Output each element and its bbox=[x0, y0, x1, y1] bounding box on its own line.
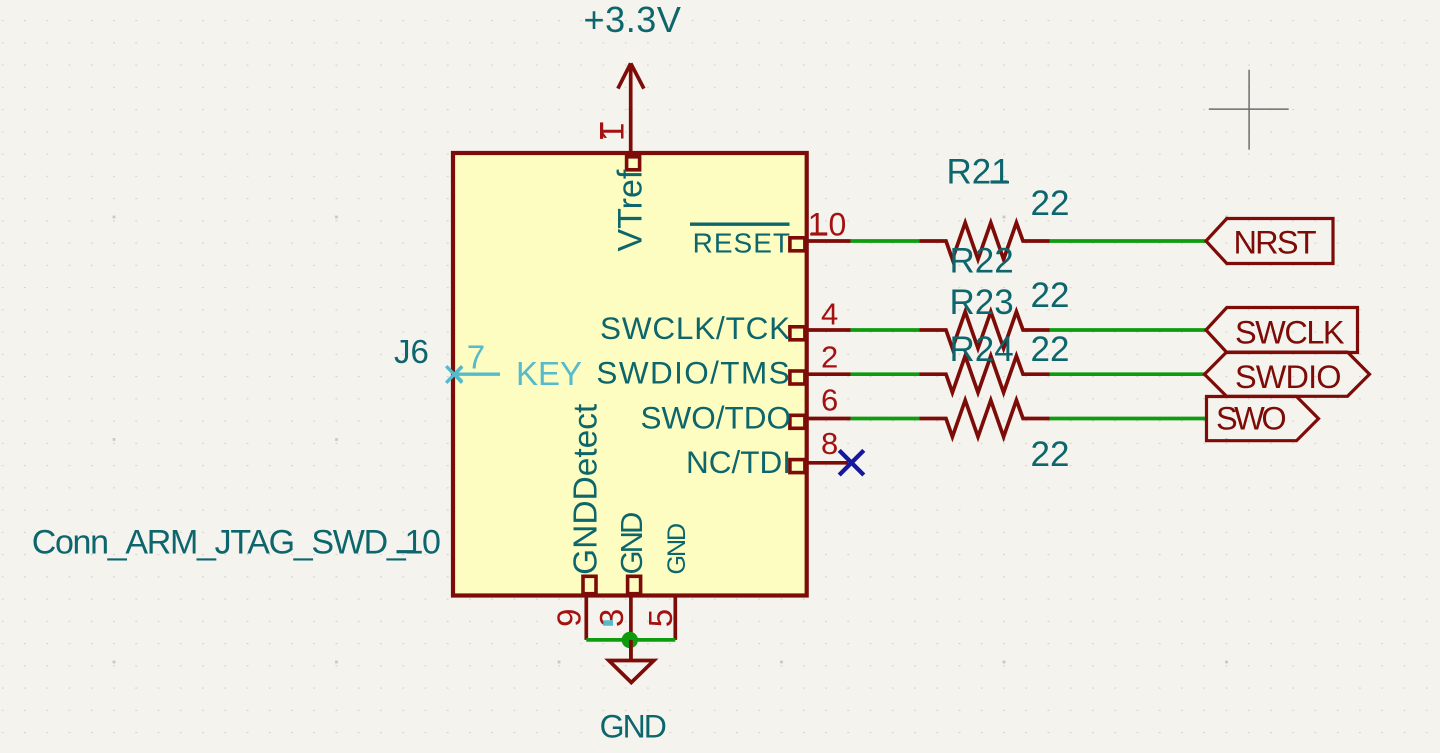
power symbol GND bbox=[600, 640, 666, 745]
wire R21 to NRST label bbox=[1050, 239, 1207, 243]
svg-text:22: 22 bbox=[1031, 184, 1070, 223]
resistor R24 bbox=[920, 330, 1070, 474]
wire R24 to SWO label bbox=[1050, 417, 1207, 421]
svg-text:9: 9 bbox=[551, 608, 588, 626]
global label NRST bbox=[1206, 219, 1333, 264]
wire pin6 to R24 bbox=[851, 417, 920, 421]
svg-text:Conn_ARM_JTAG_SWD_10: Conn_ARM_JTAG_SWD_10 bbox=[32, 523, 440, 561]
wire pin2 to R23 bbox=[851, 372, 920, 376]
svg-text:NC/TDI: NC/TDI bbox=[686, 444, 791, 480]
wire pin10 to R21 bbox=[851, 239, 920, 243]
connector J6 body bbox=[453, 153, 807, 596]
global label SWCLK bbox=[1206, 308, 1358, 353]
svg-text:5: 5 bbox=[642, 609, 679, 627]
svg-text:GND: GND bbox=[600, 709, 666, 745]
svg-text:J6: J6 bbox=[394, 333, 429, 370]
svg-text:SWO: SWO bbox=[1216, 401, 1285, 437]
svg-text:KEY: KEY bbox=[516, 355, 582, 392]
svg-text:R23: R23 bbox=[950, 283, 1014, 322]
svg-text:SWCLK: SWCLK bbox=[1235, 314, 1345, 350]
svg-text:NRST: NRST bbox=[1234, 225, 1317, 261]
global label SWDIO bbox=[1205, 352, 1370, 396]
hidden pin 7 (KEY) of J6 bbox=[446, 339, 582, 393]
junction at pin 3 / GND bbox=[622, 632, 638, 648]
pin 1 (VTref) of J6 bbox=[594, 108, 650, 252]
wire R23 to SWDIO label bbox=[1050, 372, 1205, 376]
svg-text:22: 22 bbox=[1031, 435, 1070, 474]
svg-text:GND: GND bbox=[614, 513, 649, 575]
sheet origin crosshair bbox=[1209, 70, 1289, 150]
global label SWO bbox=[1207, 397, 1319, 441]
svg-text:22: 22 bbox=[1031, 276, 1070, 315]
resistor R22 bbox=[920, 241, 1070, 348]
wire R22 to SWCLK label bbox=[1050, 328, 1207, 332]
svg-text:R24: R24 bbox=[950, 330, 1014, 369]
svg-text:SWDIO: SWDIO bbox=[1235, 359, 1341, 395]
svg-text:+3.3V: +3.3V bbox=[583, 0, 681, 40]
svg-text:8: 8 bbox=[821, 426, 838, 461]
svg-text:SWO/TDO: SWO/TDO bbox=[641, 400, 792, 436]
resistor R23 bbox=[920, 283, 1070, 393]
power symbol +3.3V bbox=[583, 0, 681, 110]
svg-text:2: 2 bbox=[821, 339, 838, 374]
pin 10 (RESET) of J6 bbox=[690, 207, 851, 259]
svg-text:4: 4 bbox=[821, 297, 838, 332]
svg-text:GND: GND bbox=[663, 524, 691, 575]
wire gnd bus (pins 9,3,5) bbox=[586, 638, 675, 642]
no-connect X at pin 8 bbox=[839, 450, 864, 475]
hidden-pin artifact near pin 3 bbox=[603, 620, 613, 626]
pin 4 (SWCLK/TCK) of J6 bbox=[600, 297, 850, 347]
resistor R21 bbox=[920, 153, 1070, 260]
svg-text:SWCLK/TCK: SWCLK/TCK bbox=[600, 310, 791, 346]
svg-text:7: 7 bbox=[467, 339, 485, 376]
pin 3 (GND) of J6 bbox=[593, 513, 649, 661]
svg-text:R22: R22 bbox=[950, 241, 1014, 280]
svg-text:22: 22 bbox=[1031, 330, 1070, 369]
svg-text:1: 1 bbox=[594, 123, 631, 141]
svg-text:RESET: RESET bbox=[693, 227, 791, 258]
wire pin4 to R22 bbox=[851, 328, 920, 332]
svg-text:GNDDetect: GNDDetect bbox=[567, 403, 604, 575]
svg-text:R21: R21 bbox=[947, 153, 1011, 192]
svg-text:6: 6 bbox=[821, 383, 838, 418]
svg-text:SWDIO/TMS: SWDIO/TMS bbox=[596, 355, 791, 391]
pin 8 (NC/TDI) of J6 bbox=[686, 426, 848, 480]
pin 9 (GNDDetect) of J6 bbox=[551, 403, 605, 640]
pin 6 (SWO/TDO) of J6 bbox=[641, 383, 851, 436]
svg-text:VTref: VTref bbox=[612, 169, 650, 251]
pin 2 (SWDIO/TMS) of J6 bbox=[596, 339, 850, 390]
svg-text:10: 10 bbox=[808, 207, 850, 243]
pin 5 (GND) of J6 bbox=[642, 524, 691, 640]
